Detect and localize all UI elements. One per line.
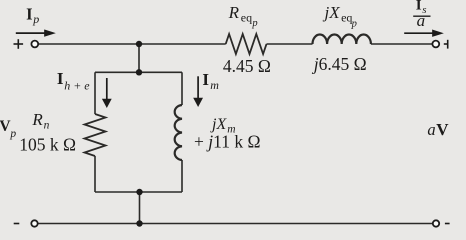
svg-text:p: p (351, 19, 357, 30)
svg-text:j11 k Ω: j11 k Ω (206, 131, 260, 151)
svg-text:a: a (427, 120, 435, 139)
svg-text:m: m (210, 78, 219, 92)
svg-text:V: V (436, 120, 449, 139)
svg-text:p: p (32, 12, 39, 26)
svg-text:a: a (417, 11, 426, 30)
svg-text:jX: jX (323, 3, 341, 22)
svg-text:I: I (202, 70, 209, 89)
svg-text:R: R (31, 110, 43, 129)
svg-text:I: I (57, 69, 64, 88)
svg-text:h + e: h + e (64, 79, 90, 93)
svg-text:4.45 Ω: 4.45 Ω (223, 56, 271, 76)
svg-text:+: + (194, 131, 204, 151)
svg-text:I: I (26, 4, 32, 23)
svg-text:R: R (228, 3, 240, 22)
svg-text:n: n (44, 120, 50, 132)
svg-text:105 k Ω: 105 k Ω (19, 134, 76, 154)
svg-text:p: p (9, 128, 16, 140)
svg-text:j6.45 Ω: j6.45 Ω (312, 54, 367, 74)
svg-text:eq: eq (241, 10, 252, 24)
svg-text:p: p (251, 18, 257, 29)
